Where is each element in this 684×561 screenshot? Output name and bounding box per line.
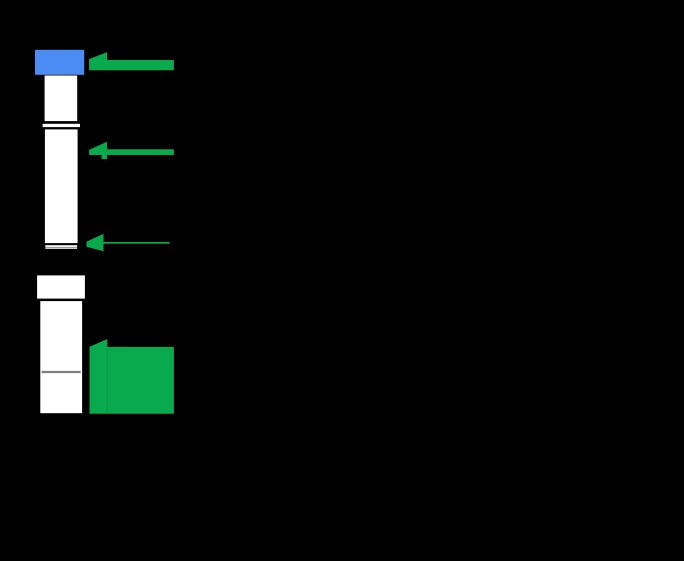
arrow 1 (top, thick green left arrow at cap) — [89, 52, 174, 70]
collection tube liquid level line (gray) — [42, 371, 81, 373]
outlet band gray midline — [45, 247, 77, 248]
green block seam — [107, 347, 108, 414]
spin column body — [45, 129, 78, 243]
spin column cap (blue) — [35, 50, 84, 75]
arrow 2 (middle, thick green left arrow at column body) — [89, 142, 174, 159]
spin column flange — [43, 124, 80, 127]
spin column neck — [45, 76, 78, 122]
collection tube body — [40, 301, 82, 413]
arrow 3 (thin green left arrow at column outlet) — [87, 234, 104, 251]
spin column outlet band — [45, 245, 77, 249]
collection tube rim — [37, 275, 85, 298]
arrow 3 shaft — [104, 242, 170, 244]
green block (bottom, flag-shaped green box at collection tube) — [90, 339, 174, 414]
